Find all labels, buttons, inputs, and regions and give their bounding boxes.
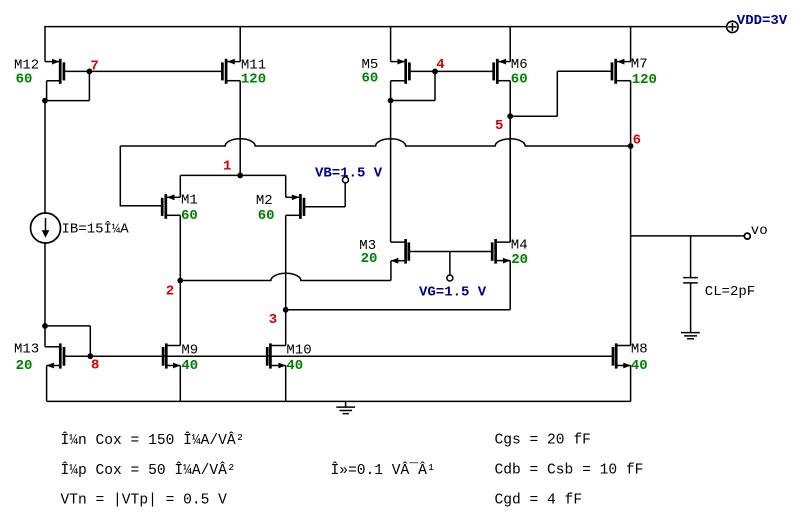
svg-text:M8: M8	[631, 342, 648, 358]
svg-text:7: 7	[90, 59, 98, 75]
wire node 6 down to M8 drain	[630, 146, 632, 346]
svg-text:2: 2	[166, 283, 174, 299]
node 6	[628, 132, 641, 149]
svg-text:Cgd = 4 fF: Cgd = 4 fF	[495, 493, 583, 509]
terminal vo	[744, 223, 767, 239]
svg-text:6: 6	[633, 132, 641, 148]
wire M5 drain to M3	[390, 101, 392, 243]
wire left rail (to current source)	[44, 101, 46, 213]
wire top VDD rail	[45, 26, 727, 28]
svg-text:VDD=3V: VDD=3V	[737, 13, 788, 29]
svg-text:40: 40	[181, 358, 198, 374]
transistor M7	[612, 26, 657, 88]
wire left rail top (VDD to M12 source)	[44, 26, 46, 62]
svg-text:120: 120	[241, 72, 266, 88]
svg-text:3: 3	[269, 312, 277, 328]
svg-text:M9: M9	[181, 343, 198, 359]
transistor M5	[362, 26, 410, 101]
wire node 5 to M7 gate	[510, 71, 611, 116]
svg-text:M7: M7	[631, 56, 648, 72]
wire feedback M1 gate to node 6 (hops)	[120, 139, 630, 146]
transistor M8	[613, 342, 648, 402]
svg-text:120: 120	[632, 72, 657, 88]
svg-text:60: 60	[362, 70, 379, 86]
svg-text:M13: M13	[14, 342, 39, 358]
terminal VG	[419, 252, 487, 301]
ground main	[336, 401, 355, 413]
wire M13 gate-drain loop	[45, 326, 90, 356]
ground CL	[681, 333, 700, 339]
transistor M3	[359, 238, 409, 267]
node 8	[87, 353, 99, 373]
wire M3/M4 gate	[410, 251, 493, 253]
svg-text:40: 40	[631, 358, 648, 374]
svg-text:60: 60	[258, 208, 275, 224]
svg-text:VG=1.5 V: VG=1.5 V	[419, 284, 487, 300]
svg-text:M6: M6	[511, 57, 528, 73]
transistor M2	[256, 193, 304, 224]
transistor M11	[222, 26, 266, 88]
svg-text:vo: vo	[751, 223, 768, 239]
transistor M12	[14, 57, 64, 100]
svg-text:5: 5	[495, 118, 503, 134]
svg-text:CL=2pF: CL=2pF	[705, 284, 755, 300]
wire M1 gate drop	[120, 146, 162, 206]
svg-text:60: 60	[181, 208, 198, 224]
svg-text:Cgs = 20 fF: Cgs = 20 fF	[495, 433, 591, 449]
svg-text:1: 1	[223, 158, 231, 174]
svg-text:IB=15Î¼A: IB=15Î¼A	[62, 220, 130, 238]
svg-text:Î¼n Cox = 150 Î¼A/VÂ²: Î¼n Cox = 150 Î¼A/VÂ²	[61, 431, 245, 449]
wire node 3 to M10 drain	[285, 310, 287, 346]
svg-text:M1: M1	[181, 192, 198, 208]
svg-text:M10: M10	[286, 343, 311, 359]
transistor M13	[14, 342, 64, 402]
wire M2 source to node 3	[285, 215, 287, 309]
wire node 1 to M1 and M2 drains	[180, 175, 285, 197]
transistor M6	[494, 26, 528, 88]
transistor M1	[162, 192, 198, 224]
wire node 3 to M4 source	[286, 261, 511, 310]
wire node 2 to M3 source (hop over M2 source)	[180, 261, 391, 281]
capacitor CL	[683, 236, 755, 333]
svg-text:VTn = |VTp| = 0.5 V: VTn = |VTp| = 0.5 V	[61, 493, 228, 509]
power VDD terminal	[727, 13, 788, 33]
wire M1 source to node 2	[179, 215, 181, 280]
svg-text:20: 20	[511, 252, 528, 268]
svg-text:20: 20	[16, 358, 33, 374]
svg-text:M2: M2	[256, 193, 273, 209]
transistor M4	[492, 116, 528, 268]
wire M11 drain to node 1	[239, 81, 241, 176]
node 2	[166, 278, 183, 300]
svg-text:40: 40	[286, 358, 303, 374]
wire bottom ground rail	[47, 400, 631, 402]
transistor M9	[163, 343, 198, 402]
terminal VB	[305, 165, 383, 207]
node 1	[223, 158, 243, 178]
node 3	[269, 307, 289, 328]
svg-text:Î»=0.1 VÂ¯Â¹: Î»=0.1 VÂ¯Â¹	[331, 461, 436, 479]
svg-text:8: 8	[91, 357, 99, 373]
current source IB	[31, 213, 130, 243]
svg-text:20: 20	[361, 251, 378, 267]
node 7	[42, 59, 222, 104]
svg-text:60: 60	[511, 72, 528, 88]
svg-text:Cdb = Csb = 10 fF: Cdb = Csb = 10 fF	[495, 463, 644, 479]
wire M7 drain to node 6	[630, 81, 632, 146]
node at M13 drain tap	[42, 323, 48, 329]
wire node 5 to M4 drain	[509, 116, 511, 242]
wire M6 drain to node 5	[509, 81, 511, 117]
svg-text:4: 4	[436, 57, 444, 73]
transistor M10	[267, 343, 311, 402]
node 4	[388, 57, 494, 103]
svg-text:60: 60	[16, 71, 33, 87]
wire gate rail node 8 (M13 to M8 gates)	[65, 355, 613, 357]
wire left rail (current source to M13)	[44, 243, 46, 347]
svg-text:VB=1.5 V: VB=1.5 V	[315, 165, 383, 181]
node 5	[495, 113, 513, 134]
svg-text:Î¼p Cox = 50 Î¼A/VÂ²: Î¼p Cox = 50 Î¼A/VÂ²	[61, 461, 236, 479]
wire output tap	[631, 235, 745, 237]
wire node 2 to M9 drain	[179, 281, 181, 346]
